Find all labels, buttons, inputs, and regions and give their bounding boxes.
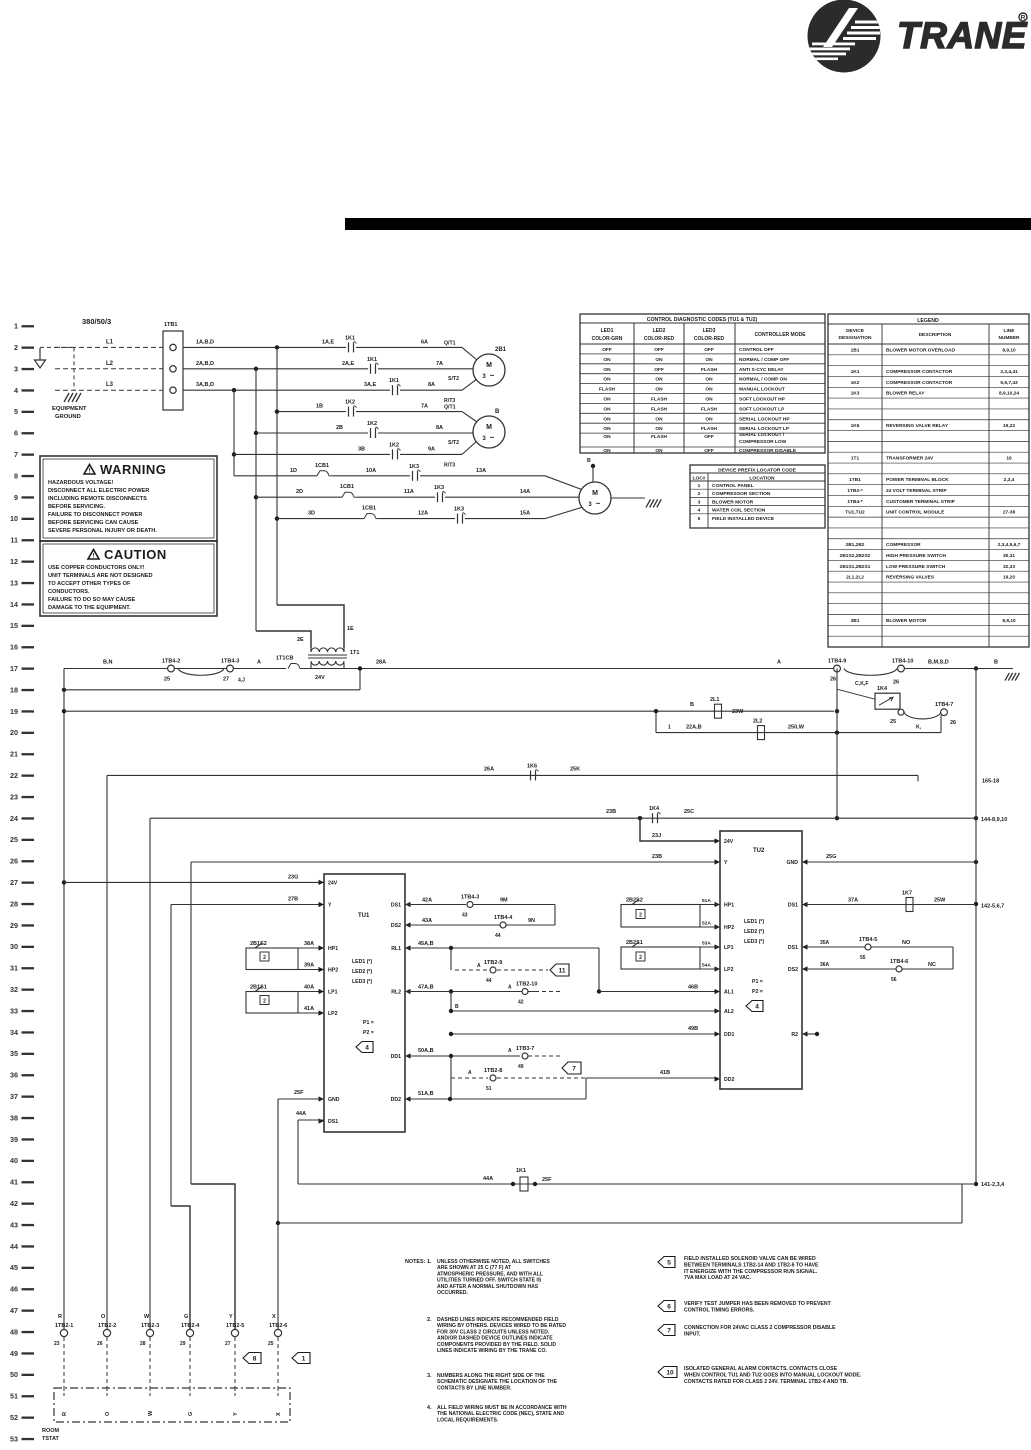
svg-text:25: 25 [10, 835, 18, 844]
svg-text:2: 2 [14, 343, 18, 352]
svg-text:UNLESS OTHERWISE NOTED, ALL SW: UNLESS OTHERWISE NOTED, ALL SWITCHES [437, 1259, 550, 1265]
svg-text:HIGH PRESSURE SWITCH: HIGH PRESSURE SWITCH [886, 553, 947, 559]
svg-text:25F: 25F [542, 1177, 552, 1183]
svg-text:NO: NO [902, 940, 911, 946]
svg-text:TU1,TU2: TU1,TU2 [845, 510, 865, 516]
svg-text:B: B [587, 458, 591, 464]
svg-text:3B1: 3B1 [851, 618, 860, 624]
circuit breaker 1CB1 pole2 [342, 492, 349, 497]
svg-text:A: A [257, 660, 261, 666]
svg-text:Y: Y [724, 860, 728, 866]
contactor contact 1K1 pole3 [392, 385, 394, 395]
svg-text:CONTROL PANEL: CONTROL PANEL [712, 483, 754, 489]
svg-text:~: ~ [490, 371, 495, 380]
svg-text:THE NATIONAL ELECTRIC CODE (NE: THE NATIONAL ELECTRIC CODE (NEC), STATE … [437, 1411, 564, 1417]
svg-text:SOFT LOCKOUT HP: SOFT LOCKOUT HP [739, 397, 786, 403]
warning box [40, 456, 217, 541]
svg-text:1K1: 1K1 [516, 1168, 526, 1174]
svg-text:ON: ON [603, 416, 611, 422]
wire 2A phase [183, 368, 368, 370]
svg-text:S/T2: S/T2 [448, 376, 459, 382]
svg-text:ON: ON [705, 357, 713, 363]
svg-text:1TB2-4: 1TB2-4 [181, 1323, 200, 1329]
phase bus vertical 2 (L2) [255, 369, 257, 631]
svg-text:~: ~ [596, 499, 601, 508]
svg-text:54A: 54A [702, 963, 711, 969]
svg-text:8A: 8A [436, 425, 443, 431]
svg-text:NORMAL / COMP OFF: NORMAL / COMP OFF [739, 357, 789, 363]
svg-text:5: 5 [14, 407, 18, 416]
svg-text:2B1: 2B1 [495, 347, 507, 353]
svg-text:1K2: 1K2 [345, 400, 355, 406]
svg-text:11: 11 [559, 968, 566, 975]
svg-text:4: 4 [365, 1045, 369, 1052]
svg-text:45A,B: 45A,B [418, 941, 434, 947]
svg-text:1TB1: 1TB1 [849, 477, 861, 483]
svg-text:BEFORE SERVICING.: BEFORE SERVICING. [48, 504, 106, 510]
svg-text:56: 56 [891, 977, 897, 983]
svg-text:DD1: DD1 [724, 1032, 734, 1038]
svg-text:MANUAL LOCKOUT: MANUAL LOCKOUT [739, 387, 785, 393]
module TU2 [720, 831, 802, 1089]
wire 51A to TU2 HP1 [700, 904, 718, 906]
svg-text:NOTES: 1.: NOTES: 1. [405, 1259, 432, 1265]
svg-text:1: 1 [302, 1356, 306, 1363]
header rule bar [345, 218, 1031, 230]
svg-text:33: 33 [10, 1006, 18, 1015]
svg-text:4.: 4. [427, 1405, 432, 1411]
flag 1 [292, 1353, 310, 1364]
circuit breaker 1CB1 pole1 [317, 471, 324, 476]
svg-text:R: R [62, 1412, 68, 1416]
svg-text:2: 2 [698, 491, 701, 497]
svg-text:1: 1 [668, 725, 671, 731]
wire row7 from L3 bus [234, 453, 390, 455]
svg-text:P2 =: P2 = [752, 989, 763, 995]
svg-text:LP1: LP1 [328, 990, 338, 996]
wire 41B to TU2 DD2 [586, 1077, 718, 1079]
contactor contact 1K2 pole1 [348, 407, 350, 417]
terminal 1TB4-3 out [467, 902, 473, 908]
svg-text:LP2: LP2 [328, 1011, 338, 1017]
svg-text:P2 =: P2 = [363, 1030, 374, 1036]
svg-text:19: 19 [10, 707, 18, 716]
svg-text:1K1: 1K1 [851, 369, 860, 375]
TU1 pin arrows [319, 880, 325, 885]
svg-text:B: B [495, 409, 500, 415]
contactor contact 1K2 pole2 [370, 428, 372, 438]
svg-text:UNIT CONTROL MODULE: UNIT CONTROL MODULE [886, 510, 945, 516]
svg-text:18: 18 [10, 685, 18, 694]
svg-text:Y: Y [229, 1314, 233, 1320]
svg-text:VERIFY TEST JUMPER HAS BEEN RE: VERIFY TEST JUMPER HAS BEEN REMOVED TO P… [684, 1301, 832, 1307]
svg-text:1K1: 1K1 [345, 335, 355, 341]
svg-text:7A: 7A [436, 361, 443, 367]
wire 1A phase [183, 346, 346, 348]
svg-text:24V: 24V [724, 839, 734, 845]
svg-text:ROOM: ROOM [42, 1428, 60, 1434]
svg-text:W: W [144, 1314, 150, 1320]
svg-text:ON: ON [655, 448, 663, 454]
wire 12A [380, 518, 455, 520]
svg-text:LP2: LP2 [724, 967, 734, 973]
svg-text:POWER TERMINAL BLOCK: POWER TERMINAL BLOCK [886, 477, 949, 483]
terminal below 1K4 [898, 709, 904, 715]
pressure switch 2B2S1 [621, 947, 700, 969]
svg-text:22A,B: 22A,B [686, 725, 702, 731]
svg-text:46B: 46B [688, 985, 698, 991]
svg-text:OCCURRED.: OCCURRED. [437, 1290, 468, 1296]
svg-text:A: A [508, 1048, 512, 1054]
svg-text:27: 27 [223, 677, 229, 683]
svg-text:28A: 28A [376, 660, 386, 666]
svg-text:1TB2-8: 1TB2-8 [484, 1068, 502, 1074]
wire to motor 2B1 T1 [356, 346, 462, 348]
svg-text:28: 28 [10, 899, 18, 908]
svg-text:1K2: 1K2 [851, 380, 860, 386]
svg-text:11: 11 [10, 536, 18, 545]
bottom return rail [278, 1222, 962, 1224]
wire row17 to TB4-9 [304, 668, 833, 670]
relay contact 1K3 pole1 [412, 471, 414, 481]
terminal 1TB2-4 [186, 1329, 193, 1336]
svg-text:BEFORE SERVICING CAN CAUSE: BEFORE SERVICING CAN CAUSE [48, 520, 139, 526]
svg-text:DASHED LINES INDICATE RECOMMEN: DASHED LINES INDICATE RECOMMENDED FIELD [437, 1317, 559, 1323]
svg-text:L2: L2 [106, 361, 114, 367]
svg-text:44A: 44A [296, 1111, 306, 1117]
relay contact 1K3 pole2 [437, 492, 439, 502]
svg-text:UNIT TERMINALS ARE NOT DESIGNE: UNIT TERMINALS ARE NOT DESIGNED [48, 573, 153, 579]
svg-text:141-2,3,4: 141-2,3,4 [981, 1182, 1005, 1188]
svg-text:2B1S1,2B2S1: 2B1S1,2B2S1 [840, 564, 871, 570]
wire row18 return [64, 689, 360, 691]
svg-text:1B: 1B [316, 404, 323, 410]
svg-text:23: 23 [54, 1341, 60, 1347]
svg-text:42: 42 [518, 1000, 524, 1006]
wire row32 to TU2 AL1 [599, 991, 718, 993]
svg-text:TU1: TU1 [358, 913, 370, 919]
svg-text:50: 50 [10, 1370, 18, 1379]
svg-text:R/T3: R/T3 [444, 398, 455, 404]
svg-text:FLASH: FLASH [599, 387, 616, 393]
svg-text:41: 41 [10, 1178, 18, 1187]
svg-text:Q/T1: Q/T1 [444, 405, 456, 411]
svg-text:ON: ON [705, 387, 713, 393]
wire TU1 DD1 out 50A,B [405, 1055, 520, 1057]
svg-text:31: 31 [10, 964, 18, 973]
svg-text:9A: 9A [428, 446, 435, 452]
svg-text:27: 27 [225, 1341, 231, 1347]
svg-text:25: 25 [890, 719, 896, 725]
flag 7 [562, 1062, 581, 1074]
svg-text:FOR 30V CLASS 2 CIRCUITS UNLES: FOR 30V CLASS 2 CIRCUITS UNLESS NOTED. [437, 1329, 550, 1335]
svg-text:51: 51 [486, 1086, 492, 1092]
wire 14A to blower [445, 496, 579, 498]
svg-text:COMPRESSOR CONTACTOR: COMPRESSOR CONTACTOR [886, 369, 953, 375]
svg-text:DD2: DD2 [391, 1097, 401, 1103]
svg-text:25K: 25K [570, 766, 580, 772]
svg-text:ON: ON [603, 397, 611, 403]
svg-text:WHEN CONTROL TU1 AND TU2 GOES: WHEN CONTROL TU1 AND TU2 GOES INTO MANUA… [684, 1372, 862, 1378]
dashed thermostat wire 2 [106, 1337, 108, 1388]
ground at blower [646, 499, 651, 507]
svg-text:1K3: 1K3 [851, 391, 860, 397]
svg-text:28: 28 [140, 1341, 146, 1347]
svg-text:1T1: 1T1 [851, 456, 860, 462]
svg-text:25: 25 [164, 677, 170, 683]
svg-text:A: A [777, 660, 781, 666]
wire 54A to TU2 LP2 [700, 968, 718, 970]
wire row19 reversing valve [64, 710, 834, 712]
svg-text:25W: 25W [934, 898, 946, 904]
svg-text:43: 43 [10, 1220, 18, 1229]
svg-text:CONDUCTORS.: CONDUCTORS. [48, 589, 90, 595]
svg-text:24V: 24V [328, 880, 338, 886]
svg-text:ARE SHOWN AT 25 C (77 F) AT: ARE SHOWN AT 25 C (77 F) AT [437, 1265, 512, 1271]
svg-text:52: 52 [10, 1413, 18, 1422]
svg-text:11A: 11A [404, 489, 414, 495]
svg-text:NUMBER: NUMBER [998, 335, 1020, 341]
svg-text:1CB1: 1CB1 [362, 506, 376, 512]
svg-text:1TB4-10: 1TB4-10 [892, 659, 913, 665]
svg-text:COMPONENTS PROVIDED BY THE FIE: COMPONENTS PROVIDED BY THE FIELD. SOLID [437, 1342, 556, 1348]
svg-text:B: B [994, 660, 998, 666]
svg-text:CONTROL DIAGNOSTIC CODES (TU1: CONTROL DIAGNOSTIC CODES (TU1 & TU2) [647, 317, 758, 323]
svg-text:IT ENERGIZE WITH THE COMPRESSO: IT ENERGIZE WITH THE COMPRESSOR RUN SIGN… [684, 1269, 818, 1275]
svg-text:5,6,7,43: 5,6,7,43 [1000, 380, 1018, 386]
svg-text:29: 29 [180, 1341, 186, 1347]
wire L2 service [55, 368, 163, 370]
svg-text:ANTI S-CYC DELAY: ANTI S-CYC DELAY [739, 367, 784, 373]
svg-text:BLOWER MOTOR: BLOWER MOTOR [712, 499, 754, 505]
svg-text:35: 35 [10, 1049, 18, 1058]
terminal 1TB3-7 [522, 1053, 528, 1059]
svg-text:BETWEEN TERMINALS 1TB2-14 AND: BETWEEN TERMINALS 1TB2-14 AND 1TB2-6 TO … [684, 1262, 819, 1268]
vertical row22 to 1TB2-2 [106, 775, 108, 1329]
svg-text:46: 46 [10, 1285, 18, 1294]
svg-text:7: 7 [667, 1328, 671, 1335]
right bus vertical [975, 669, 977, 1185]
svg-text:8,9,10: 8,9,10 [1002, 347, 1016, 353]
svg-text:GND: GND [328, 1097, 340, 1103]
equipment ground hatch [64, 393, 69, 402]
svg-text:1K1: 1K1 [389, 378, 399, 384]
notes paragraph 3 [427, 1373, 558, 1391]
dashed from TB2-10 [528, 991, 560, 993]
svg-text:2: 2 [639, 913, 642, 919]
svg-text:CONTACTS BY LINE NUMBER.: CONTACTS BY LINE NUMBER. [437, 1385, 512, 1391]
circuit breaker 1T1CB [288, 664, 295, 669]
notes paragraph 4 [427, 1405, 567, 1423]
svg-text:39A: 39A [304, 963, 314, 969]
svg-text:NORMAL / COMP ON: NORMAL / COMP ON [739, 377, 787, 383]
svg-text:A: A [477, 963, 481, 969]
svg-text:1TB2-3: 1TB2-3 [141, 1323, 159, 1329]
wire TU1 RL2 out 47A,B [405, 991, 535, 993]
svg-text:41B: 41B [660, 1070, 670, 1076]
svg-text:3: 3 [14, 364, 18, 373]
wire TU2 DS1b to TB4-5 [804, 946, 953, 948]
svg-text:1TB4-5: 1TB4-5 [859, 937, 877, 943]
svg-text:42A: 42A [422, 898, 432, 904]
svg-text:165-18: 165-18 [982, 778, 999, 784]
svg-text:19,20: 19,20 [1003, 575, 1015, 581]
svg-text:LEGEND: LEGEND [917, 318, 939, 324]
svg-text:NUMBERS ALONG THE RIGHT SIDE O: NUMBERS ALONG THE RIGHT SIDE OF THE [437, 1373, 545, 1379]
svg-text:30: 30 [10, 942, 18, 951]
svg-text:1TB2-5: 1TB2-5 [226, 1323, 244, 1329]
svg-text:2B1,2B2: 2B1,2B2 [846, 542, 865, 548]
svg-text:8,9,10,24: 8,9,10,24 [999, 391, 1019, 397]
svg-text:16: 16 [10, 643, 18, 652]
svg-text:CONTROLLER MODE: CONTROLLER MODE [754, 332, 806, 338]
svg-text:55: 55 [860, 955, 866, 961]
svg-text:CUSTOMER TERMINAL STRIP: CUSTOMER TERMINAL STRIP [886, 499, 956, 505]
svg-text:3B: 3B [358, 446, 365, 452]
svg-text:10: 10 [10, 514, 18, 523]
svg-text:1TB4-*: 1TB4-* [847, 499, 862, 505]
svg-text:51A: 51A [702, 898, 711, 904]
wire 23B to TU2 Y [191, 861, 718, 863]
svg-text:M: M [486, 362, 492, 369]
svg-text:USE COPPER CONDUCTORS ONLY!: USE COPPER CONDUCTORS ONLY! [48, 565, 145, 571]
jumper arc TB4-2 to TB4-3 [178, 669, 224, 676]
pressure switch 2B1S2 [246, 948, 298, 970]
svg-text:2,3,4,41: 2,3,4,41 [1000, 369, 1018, 375]
svg-text:2: 2 [263, 999, 266, 1005]
dashed thermostat wire 5 [234, 1337, 236, 1388]
flag 8 [243, 1353, 261, 1364]
svg-text:ON: ON [603, 448, 611, 454]
svg-text:TO ACCEPT OTHER TYPES OF: TO ACCEPT OTHER TYPES OF [48, 581, 131, 587]
svg-text:8,9,10: 8,9,10 [1002, 618, 1016, 624]
svg-text:DS1: DS1 [391, 903, 401, 909]
svg-text:23B: 23B [652, 854, 662, 860]
svg-text:O: O [105, 1411, 111, 1416]
svg-text:DEVICE: DEVICE [846, 328, 865, 334]
wire 52A to TU2 HP2 [700, 926, 718, 928]
svg-text:2D: 2D [296, 489, 303, 495]
svg-text:B,N: B,N [103, 660, 113, 666]
svg-text:1K6: 1K6 [851, 423, 860, 429]
svg-text:BLOWER MOTOR OVERLOAD: BLOWER MOTOR OVERLOAD [886, 347, 955, 353]
svg-text:44: 44 [495, 933, 501, 939]
svg-text:SEVERE PERSONAL INJURY OR DEAT: SEVERE PERSONAL INJURY OR DEATH. [48, 528, 157, 534]
svg-text:EQUIPMENT: EQUIPMENT [52, 406, 87, 412]
svg-text:Y: Y [328, 903, 332, 909]
pressure switch 2B2S2 [621, 905, 700, 928]
svg-text:51: 51 [10, 1392, 18, 1401]
wire to motor 2B1 T3 [400, 389, 462, 391]
contactor contact 1K1 pole2 [370, 364, 372, 374]
svg-text:1K3: 1K3 [409, 464, 419, 470]
svg-text:SOFT LOCKOUT LP: SOFT LOCKOUT LP [739, 406, 785, 412]
svg-text:X: X [272, 1314, 276, 1320]
dashed from TB3-7 [528, 1055, 560, 1057]
wire row22 1K6 [107, 774, 918, 776]
svg-text:BLOWER MOTOR: BLOWER MOTOR [886, 618, 927, 624]
svg-text:G: G [188, 1412, 194, 1416]
notes paragraph 2 [427, 1317, 566, 1354]
svg-text:1TB4-2: 1TB4-2 [162, 659, 180, 665]
wire row41 1K1 coil [298, 1183, 976, 1185]
svg-text:7VA MAX LOAD AT 24 VAC.: 7VA MAX LOAD AT 24 VAC. [684, 1275, 752, 1281]
terminal 1TB2-5 [231, 1329, 238, 1336]
svg-text:TU2: TU2 [753, 848, 765, 854]
svg-text:7A: 7A [421, 404, 428, 410]
svg-text:HP1: HP1 [328, 946, 338, 952]
svg-text:LED2 (*): LED2 (*) [352, 969, 372, 975]
svg-text:FAILURE TO DISCONNECT POWER: FAILURE TO DISCONNECT POWER [48, 512, 142, 518]
svg-text:B,M,S,D: B,M,S,D [928, 660, 949, 666]
svg-text:24 VOLT TERMINAL STRIP: 24 VOLT TERMINAL STRIP [886, 488, 947, 494]
svg-text:FLASH: FLASH [651, 434, 668, 440]
svg-text:2L1,2L2: 2L1,2L2 [846, 575, 864, 581]
circuit breaker 1CB1 pole3 [364, 514, 371, 519]
terminal 1TB2-2 [103, 1329, 110, 1336]
svg-text:47A,B: 47A,B [418, 985, 434, 991]
vertical DS1 to row41 [297, 1120, 299, 1184]
svg-text:UTILITIES TURNED OFF. SWITCH S: UTILITIES TURNED OFF. SWITCH STATE IS [437, 1278, 542, 1284]
terminal 1TB2-3 [146, 1329, 153, 1336]
svg-text:14: 14 [10, 600, 18, 609]
svg-text:25F: 25F [294, 1090, 304, 1096]
svg-text:ON: ON [655, 387, 663, 393]
TU2 pin arrows [715, 838, 721, 843]
motor 2B1 compressor [473, 354, 505, 386]
svg-text:9N: 9N [528, 918, 535, 924]
svg-text:RL1: RL1 [391, 946, 401, 952]
svg-text:WATER COIL SECTION: WATER COIL SECTION [712, 508, 766, 514]
svg-text:FLASH: FLASH [701, 406, 718, 412]
svg-text:ON: ON [603, 426, 611, 432]
svg-text:FLASH: FLASH [651, 406, 668, 412]
svg-text:FAILURE TO DO SO MAY CAUSE: FAILURE TO DO SO MAY CAUSE [48, 597, 136, 603]
svg-text:ON: ON [603, 434, 611, 440]
svg-text:1TB2-*: 1TB2-* [847, 488, 862, 494]
module TU1 [324, 874, 405, 1132]
wire 9M [473, 904, 555, 906]
svg-text:2L1: 2L1 [710, 697, 719, 703]
svg-text:25G: 25G [826, 854, 836, 860]
svg-text:LED3: LED3 [703, 328, 716, 334]
wire TU2 GND to right bus [804, 861, 976, 863]
svg-text:3A,E: 3A,E [364, 382, 377, 388]
svg-text:OFF: OFF [704, 434, 714, 440]
pressure switch 2B1S1 [246, 992, 298, 1014]
svg-text:39: 39 [10, 1135, 18, 1144]
wire 10A [333, 475, 410, 477]
svg-text:OFF: OFF [704, 448, 714, 454]
svg-text:Y: Y [233, 1412, 239, 1416]
svg-text:CONTROL TIMING ERRORS.: CONTROL TIMING ERRORS. [684, 1307, 755, 1313]
svg-text:COMPRESSOR CONTACTOR: COMPRESSOR CONTACTOR [886, 380, 953, 386]
svg-text:1K2: 1K2 [367, 421, 377, 427]
svg-text:43: 43 [462, 913, 468, 919]
wire TU1 DS2 out 43A [405, 924, 500, 926]
svg-text:26: 26 [893, 680, 899, 686]
terminal 1TB2-6 [274, 1329, 281, 1336]
svg-text:ALL FIELD WIRING MUST BE IN AC: ALL FIELD WIRING MUST BE IN ACCORDANCE W… [437, 1405, 567, 1411]
svg-text:13: 13 [10, 578, 18, 587]
contactor contact 1K2 pole3 [392, 449, 394, 459]
svg-text:1TB4-7: 1TB4-7 [935, 702, 953, 708]
svg-text:49: 49 [10, 1349, 18, 1358]
svg-text:LOW PRESSURE SWITCH: LOW PRESSURE SWITCH [886, 564, 946, 570]
svg-text:3D: 3D [308, 511, 315, 517]
svg-text:23J: 23J [652, 833, 661, 839]
wire 27B to TU1 Y [171, 904, 322, 906]
